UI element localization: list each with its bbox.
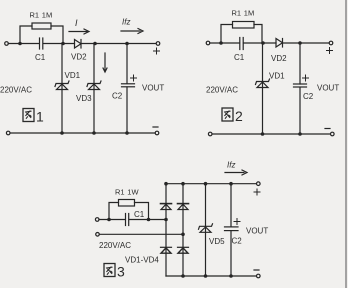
svg-text:VD3: VD3 — [76, 94, 92, 103]
svg-text:VOUT: VOUT — [142, 84, 164, 93]
capacitor C2 wire bottom — [230, 231, 232, 276]
svg-text:1: 1 — [36, 109, 44, 125]
node junction G — [298, 41, 302, 45]
svg-text:220V/AC: 220V/AC — [0, 86, 32, 95]
capacitor C2 wire top — [299, 43, 301, 84]
bottom rail — [10, 132, 155, 134]
bottom-right terminal - — [331, 132, 335, 136]
capacitor C2 — [122, 84, 135, 87]
top rail junction right column — [181, 182, 185, 186]
top rail junction left column — [164, 182, 168, 186]
capacitor C2 wire top — [126, 44, 128, 84]
svg-text:VD1-VD4: VD1-VD4 — [125, 256, 159, 265]
svg-text:VD5: VD5 — [209, 237, 225, 246]
svg-text:220V/AC: 220V/AC — [99, 241, 131, 250]
node left column / line1 — [164, 218, 168, 222]
capacitor C2 — [294, 84, 307, 87]
bottom-left terminal — [208, 132, 212, 136]
minus sign — [254, 269, 259, 271]
wire line1 to C1 — [99, 219, 125, 221]
bottom-left terminal — [6, 131, 10, 135]
svg-text:VD2: VD2 — [71, 53, 87, 62]
C2 plus sign — [131, 75, 137, 81]
node junction B — [61, 42, 65, 46]
label fig2 — [222, 108, 233, 121]
top rail — [166, 183, 257, 185]
zener VD5 — [199, 224, 213, 233]
wire C1 to bridge — [129, 219, 166, 221]
bottom rail junction VD1 — [261, 132, 265, 136]
diode VD1 (bridge top-left) — [161, 204, 172, 210]
node junction C — [93, 42, 97, 46]
capacitor C2 — [225, 227, 239, 231]
svg-text:3: 3 — [117, 264, 125, 280]
resistor R1 — [119, 200, 135, 207]
output terminal + — [257, 182, 261, 186]
bottom rail junction VD3 — [92, 131, 96, 135]
C2 plus sign — [303, 75, 309, 81]
wire line2 to bridge — [99, 233, 183, 235]
input terminal (top-left of circuit 2) — [206, 41, 210, 45]
bottom-right terminal - — [257, 274, 261, 278]
bottom rail — [212, 133, 331, 135]
svg-text:C1: C1 — [234, 53, 245, 62]
output terminal + — [329, 41, 333, 45]
capacitor C1 — [126, 214, 129, 226]
wire C1 to VD2 — [244, 42, 277, 44]
svg-text:VOUT: VOUT — [246, 227, 268, 236]
right edge scan line — [345, 0, 347, 288]
wire input to C1 — [8, 43, 39, 45]
svg-text:R1 1M: R1 1M — [232, 9, 255, 18]
svg-text:VOUT: VOUT — [317, 84, 339, 93]
capacitor C2 wire bottom — [126, 87, 128, 133]
bridge left column wire — [165, 184, 167, 276]
current arrow Ifz — [121, 29, 143, 34]
wire zener VD1 branch — [262, 43, 264, 134]
node junction H — [107, 218, 111, 222]
bottom-right terminal - — [155, 131, 159, 135]
zener VD1 — [55, 81, 69, 90]
top rail junction C2 — [229, 182, 233, 186]
bridge right column wire — [182, 184, 184, 276]
minus sign — [153, 126, 158, 128]
node junction D — [125, 42, 129, 46]
plus sign — [327, 48, 333, 54]
svg-text:220V/AC: 220V/AC — [206, 86, 238, 95]
node junction J — [147, 218, 151, 222]
plus sign — [254, 189, 260, 195]
svg-text:C1: C1 — [134, 210, 145, 219]
bottom rail junction VD5 — [204, 274, 208, 278]
svg-text:C2: C2 — [232, 237, 243, 246]
svg-text:Ifz: Ifz — [122, 18, 130, 27]
bottom rail junction C2 — [298, 132, 302, 136]
input terminal line1 — [95, 218, 99, 222]
wire zener VD3 branch — [93, 44, 95, 134]
top rail junction VD5 — [204, 182, 208, 186]
bottom rail junction C2 — [229, 274, 233, 278]
svg-text:C1: C1 — [35, 53, 46, 62]
node junction A — [18, 42, 22, 46]
svg-text:C2: C2 — [112, 92, 123, 101]
resistor R1 branch wires — [20, 26, 32, 44]
label fig3 — [104, 264, 115, 277]
svg-text:2: 2 — [235, 108, 243, 124]
svg-text:Ifz: Ifz — [227, 161, 235, 170]
capacitor C2 wire top — [230, 184, 232, 227]
plus sign — [154, 48, 160, 54]
label fig1 — [23, 109, 34, 122]
resistor R1 — [233, 22, 255, 29]
diode VD2 — [75, 40, 82, 49]
current arrow I — [69, 29, 89, 34]
wire C1 to VD2 — [43, 43, 74, 45]
node right column / line2 — [181, 233, 185, 237]
svg-text:VD1: VD1 — [65, 71, 81, 80]
output terminal + (top-right) — [156, 42, 160, 46]
input terminal line2 — [96, 233, 100, 237]
capacitor C1 — [240, 38, 243, 50]
C2 plus sign — [234, 219, 240, 225]
resistor R1 — [32, 23, 51, 29]
input terminal (top-left) — [5, 42, 9, 46]
capacitor C2 wire bottom — [299, 87, 301, 134]
bottom rail junction right column — [181, 274, 185, 278]
svg-text:C2: C2 — [303, 92, 314, 101]
wire VD2 to output — [81, 43, 156, 45]
zener VD5 branch wire — [205, 184, 207, 276]
load current down arrow — [103, 53, 107, 72]
svg-text:VD2: VD2 — [271, 54, 287, 63]
wire input to C1 — [210, 42, 240, 44]
svg-text:VD1: VD1 — [269, 72, 285, 81]
current arrow Ifz — [225, 170, 247, 175]
capacitor C1 — [40, 38, 43, 49]
wire VD2 to output — [283, 42, 330, 44]
diode VD3 (bridge bottom-left) — [161, 247, 172, 253]
diode VD2 (bridge top-right) — [178, 204, 189, 210]
minus sign — [325, 128, 330, 130]
zener VD1 — [256, 79, 270, 88]
diode VD2 — [276, 39, 283, 48]
bottom rail — [166, 275, 257, 277]
wire zener VD1 branch — [61, 44, 63, 134]
node junction F — [261, 41, 265, 45]
bottom rail junction VD1 — [60, 131, 64, 135]
diode VD4 (bridge bottom-right) — [178, 247, 189, 253]
node junction E — [219, 41, 223, 45]
zener VD3 — [87, 81, 101, 90]
resistor R1 branch wires — [109, 203, 119, 220]
svg-text:R1 1W: R1 1W — [115, 188, 139, 197]
resistor R1 branch wires — [221, 25, 233, 44]
bottom rail junction C2 — [125, 131, 129, 135]
svg-text:R1 1M: R1 1M — [30, 11, 53, 20]
